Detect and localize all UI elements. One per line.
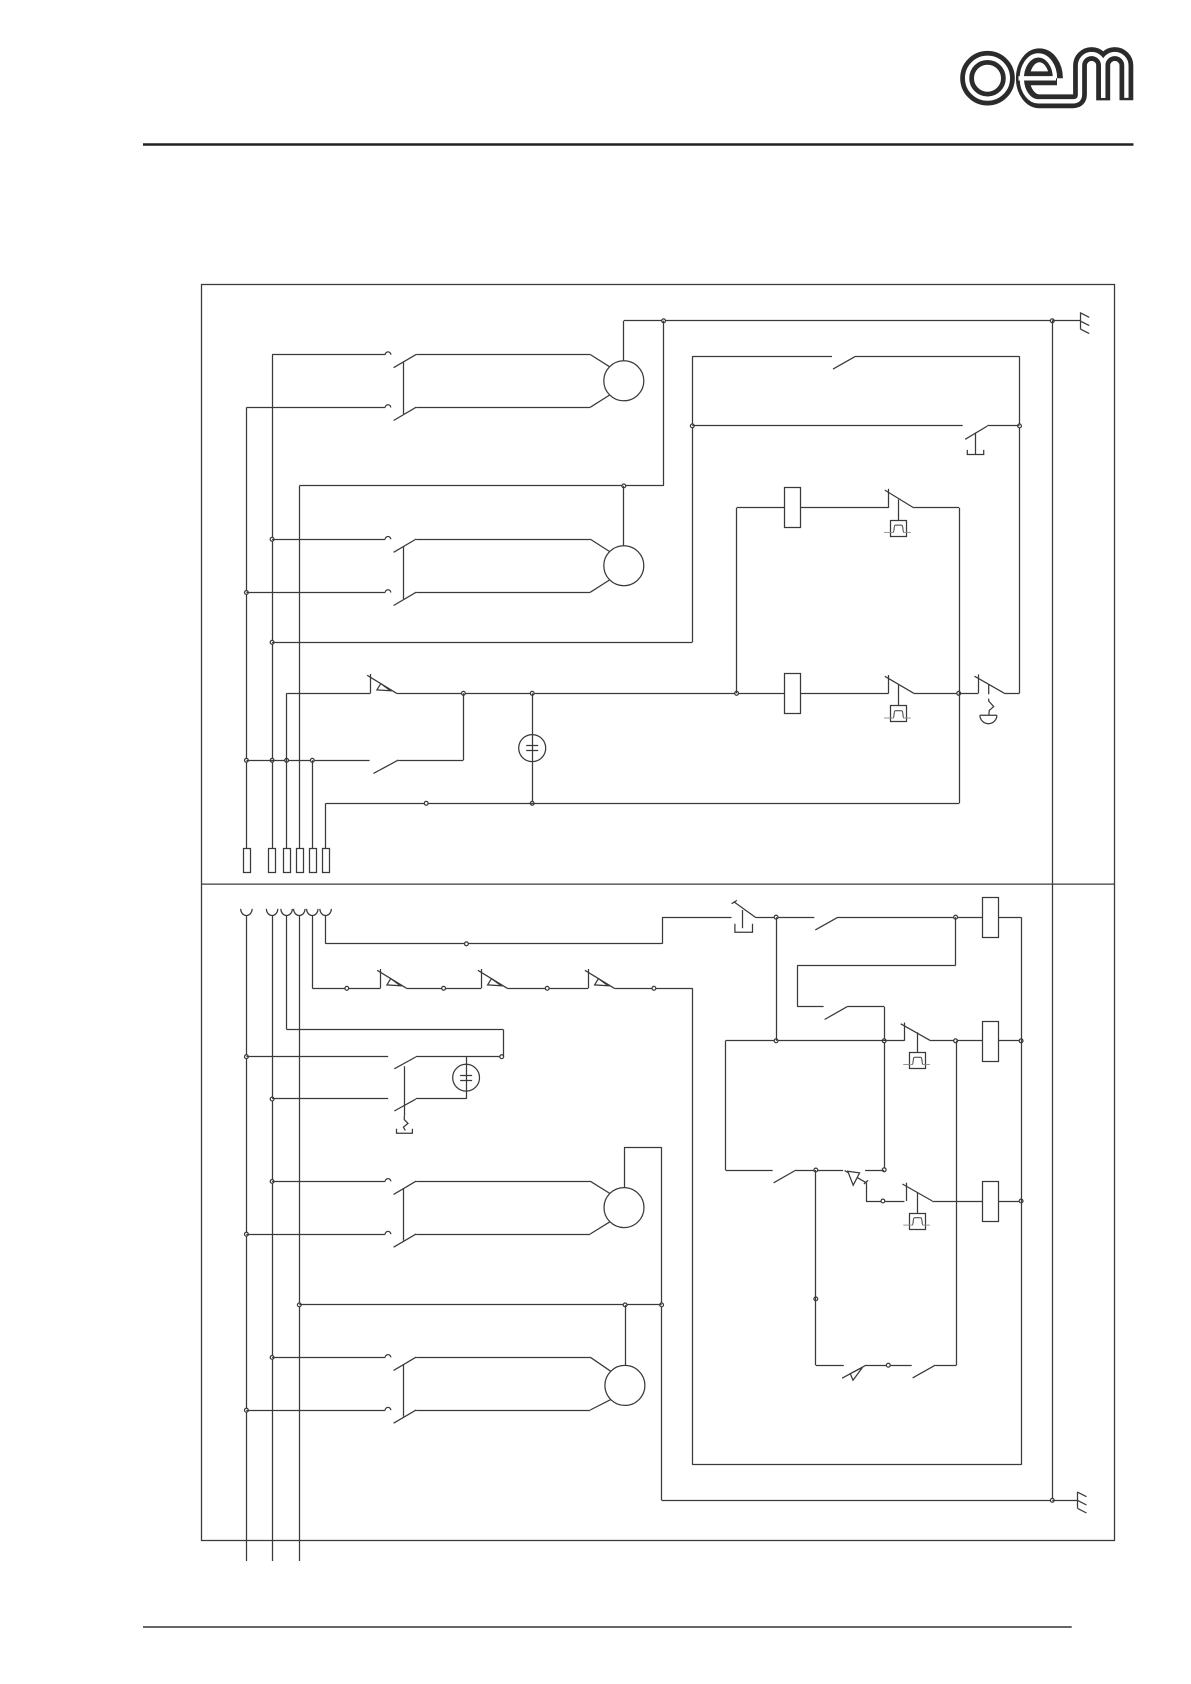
node junction	[886, 1363, 890, 1367]
connector socket 6	[320, 909, 331, 916]
contact F4 release box	[910, 1053, 926, 1069]
wire control loop feed	[272, 642, 692, 644]
node junction	[530, 691, 534, 695]
node junction	[1050, 1498, 1054, 1502]
node junction	[774, 915, 778, 919]
wire estop right	[1004, 693, 1019, 695]
wire Q1 pole1 input	[272, 354, 385, 356]
node junction	[774, 1039, 778, 1043]
fuse F3	[284, 849, 291, 873]
wire relay row2	[726, 1040, 905, 1042]
wire after K1	[800, 507, 888, 509]
switch S5 arrow blade	[842, 1365, 866, 1378]
wire branch drop3	[884, 1007, 886, 1170]
coil K1	[785, 488, 801, 528]
coil K5	[983, 1022, 999, 1062]
wire lamp row2	[272, 1098, 388, 1100]
wire L1 column lower	[246, 916, 248, 1562]
switch Q5 breaker 1	[380, 969, 382, 988]
contact F2 thermal NC	[888, 675, 890, 693]
contact K self-hold 3	[774, 1170, 797, 1183]
wire Q3 pole1 input	[272, 1181, 385, 1183]
node junction	[442, 986, 446, 990]
wire branch row	[797, 1006, 823, 1008]
contact F2 release box	[891, 706, 907, 722]
wire inner box right edge	[1021, 917, 1023, 1465]
wire phase bridge	[246, 760, 369, 762]
wire interlock riser	[776, 917, 778, 1041]
connector socket 1	[241, 909, 252, 916]
node junction	[310, 758, 314, 762]
coil K6	[983, 1182, 999, 1222]
wire fuse column 6	[325, 803, 327, 848]
wire branch row right	[847, 1006, 884, 1008]
wire lamp H1 stem	[532, 693, 534, 803]
node junction	[623, 1303, 627, 1307]
node junction	[345, 986, 349, 990]
motor M3	[604, 1188, 644, 1228]
switch S3 plunger actuator	[742, 910, 744, 928]
wire K1 branch riser	[736, 508, 738, 693]
wire Q2 pole2 input	[246, 592, 385, 594]
switch Q3 link bar	[403, 1188, 405, 1240]
switch S4 arrow blade	[845, 1171, 866, 1183]
node junction	[245, 591, 249, 595]
wire relay row4	[866, 1201, 904, 1203]
connector socket 4	[294, 909, 305, 916]
switch Q4 link bar	[403, 1364, 405, 1416]
wire Q1 pole2 output	[416, 407, 590, 409]
contact F1 release box	[891, 521, 907, 537]
node junction	[954, 1039, 958, 1043]
wire column 6 lower	[325, 916, 327, 944]
node junction	[882, 1168, 886, 1172]
node junction	[954, 915, 958, 919]
switch Q5 breaker 3	[588, 969, 590, 988]
wire M4 top feed	[625, 1305, 627, 1366]
wire relay row3 right	[865, 1170, 884, 1172]
wire after K4	[999, 917, 1022, 919]
node junction	[245, 1055, 249, 1059]
node junction	[462, 691, 466, 695]
node junction	[270, 758, 274, 762]
wire after F1	[914, 507, 959, 509]
wire Q3 pole1 output	[416, 1181, 590, 1183]
motor M4	[605, 1365, 645, 1405]
switch S2 limit blade	[965, 426, 987, 439]
wire S4 common drop	[866, 1183, 868, 1201]
wire breaker row seg1	[312, 988, 380, 990]
wire after K2	[800, 693, 888, 695]
wire relay row3	[726, 1170, 773, 1172]
ground chassis top	[1052, 320, 1080, 322]
wire control return	[326, 803, 960, 805]
node junction	[1050, 319, 1054, 323]
switch S6 link bar	[404, 1066, 406, 1116]
contact F1 thermal NC	[888, 489, 890, 508]
wire branch drop2	[797, 965, 799, 1006]
wire bottom ground rail	[662, 1500, 1053, 1502]
node junction	[545, 986, 549, 990]
switch Q5 breaker 2	[481, 969, 483, 988]
node junction	[465, 942, 469, 946]
ground chassis bottom	[1052, 1500, 1078, 1502]
contact K self-hold 1	[815, 917, 838, 930]
wire to coil K6	[932, 1201, 982, 1203]
wire control box left edge	[692, 356, 694, 642]
lamp H2	[453, 1064, 480, 1091]
wire estop left	[959, 693, 979, 695]
switch S0 estop NC	[978, 674, 980, 693]
wire relay row2 left riser	[725, 1041, 727, 1170]
wire lamp feed from col3	[287, 1029, 504, 1031]
wire L2 column lower	[272, 916, 274, 1562]
lamp H1	[519, 735, 546, 762]
wire Q4 pole1 output	[416, 1357, 590, 1359]
contact K self-hold 4	[913, 1365, 936, 1378]
wire column 5 lower	[312, 916, 314, 989]
wire motor M1 top feed	[623, 321, 625, 361]
switch Q0 lower blade	[374, 760, 399, 773]
node junction	[285, 758, 289, 762]
wire subbox bottom left	[816, 1365, 844, 1367]
wire control box right edge	[1019, 356, 1021, 693]
node junction	[1018, 424, 1022, 428]
wire control box top edge	[692, 356, 832, 358]
wire motor common	[299, 485, 663, 487]
node junction	[270, 1180, 274, 1184]
node junction	[270, 640, 274, 644]
wire to coil K5	[931, 1040, 982, 1042]
wire limit switch out	[987, 425, 1019, 427]
node junction	[690, 424, 694, 428]
contact F4 thermal NC	[904, 1023, 906, 1041]
wire K1 return riser	[959, 508, 961, 803]
wire lamp row1	[246, 1056, 388, 1058]
wire limit switch row	[692, 425, 962, 427]
wire motor M2 top feed	[623, 486, 625, 546]
wire breaker row seg3	[507, 988, 588, 990]
wire ground drop column	[661, 1147, 663, 1500]
contact F5 thermal NC	[906, 1183, 908, 1201]
fuse F4	[297, 849, 304, 873]
switch S6 foot actuator	[403, 1116, 408, 1131]
node junction	[270, 1356, 274, 1360]
node junction	[1019, 1039, 1023, 1043]
wire after K6	[998, 1201, 1021, 1203]
node junction	[660, 1303, 664, 1307]
switch S6 blade2	[394, 1099, 415, 1111]
switch S0 estop linkage	[989, 685, 994, 715]
wire after S3	[756, 917, 815, 919]
connector socket 5	[307, 909, 318, 916]
node junction	[882, 1039, 886, 1043]
wire pilot riser	[662, 917, 664, 944]
wire branch drop1	[955, 917, 957, 965]
coil K2	[785, 674, 801, 714]
wire L1 column	[246, 408, 248, 849]
node junction	[270, 1097, 274, 1101]
wire fuse column 3	[286, 693, 288, 848]
wire L3 column	[299, 486, 301, 848]
motor M1	[604, 361, 644, 401]
contact K self-hold 2	[825, 1007, 848, 1020]
wire top ground rail	[624, 320, 1053, 322]
wire column 3 lower	[286, 916, 288, 1030]
wire inner box left edge	[692, 988, 694, 1465]
node junction	[500, 1055, 504, 1059]
wire control box top edge right	[856, 356, 1020, 358]
wire subbox bottom right	[935, 1365, 956, 1367]
enclosure box top section	[202, 285, 1115, 1541]
connector socket 2	[266, 909, 277, 916]
node junction	[652, 986, 656, 990]
wire after F2	[914, 693, 959, 695]
node junction	[957, 691, 961, 695]
switch S3 limit NC blade	[734, 902, 756, 918]
fuse F6	[323, 849, 330, 873]
wire L2 column	[272, 355, 274, 848]
node junction	[814, 1168, 818, 1172]
wire lamp row1 out	[416, 1056, 502, 1058]
wire breaker row seg4	[614, 988, 692, 990]
wire Q4 pole2 output	[416, 1410, 590, 1412]
logo OEM	[967, 54, 1126, 101]
wire Q1 pole2 input	[246, 407, 385, 409]
fuse F1	[244, 849, 251, 873]
wire Q2 pole1 output	[416, 539, 590, 541]
wire Q3 pole2 output	[416, 1234, 590, 1236]
node junction	[245, 1408, 249, 1412]
wire branch cross	[797, 965, 955, 967]
fuse F5	[310, 849, 317, 873]
node junction	[530, 801, 534, 805]
wire riser to ground rail	[663, 321, 665, 486]
node junction	[881, 1199, 885, 1203]
wire after K5	[999, 1040, 1022, 1042]
wire lower pole out	[398, 760, 463, 762]
wire Q4 pole1 input	[272, 1357, 385, 1359]
node junction	[735, 691, 739, 695]
wire L3 column lower	[299, 916, 301, 1562]
wire Q2 pole1 input	[272, 539, 385, 541]
switch Q1 link bar	[403, 362, 405, 414]
switch Q2 link bar	[403, 546, 405, 599]
section divider	[202, 883, 1115, 885]
switch S2 plunger actuator	[975, 433, 977, 455]
switch S6 blade1	[394, 1057, 415, 1069]
wire pilot feed	[326, 943, 663, 945]
wire Q4 pole2 input	[246, 1410, 385, 1412]
node junction	[622, 484, 626, 488]
wire Q2 pole2 output	[416, 592, 590, 594]
contact F5 release box	[910, 1214, 926, 1230]
wire subbox right edge	[956, 1041, 958, 1365]
wire fuse column 5	[312, 760, 314, 848]
coil K4	[983, 898, 999, 938]
wire to coil K4	[838, 917, 982, 919]
wire breaker row seg2	[407, 988, 482, 990]
wire main row left	[287, 693, 371, 695]
switch S0 estop mushroom	[980, 715, 997, 723]
switch S1 blade	[833, 356, 856, 369]
wire subbox bottom mid	[866, 1365, 912, 1367]
wire pole link riser	[463, 693, 465, 760]
node junction	[424, 801, 428, 805]
wire lamp row2 out	[416, 1098, 466, 1100]
motor M2	[604, 546, 644, 586]
wire inner box bottom edge	[693, 1464, 1022, 1466]
node junction	[1019, 1199, 1023, 1203]
wire M3 top jog	[624, 1147, 626, 1187]
wire pilot row	[662, 917, 731, 919]
wire Q1 pole1 output	[416, 354, 590, 356]
wire subbox left edge	[815, 1170, 817, 1365]
switch Q0 upper breaker	[370, 674, 372, 693]
footer rule	[143, 1626, 1072, 1628]
wire K1 branch top	[737, 507, 785, 509]
header rule	[143, 143, 1134, 146]
fuse F2	[269, 849, 276, 873]
node junction	[814, 1297, 818, 1301]
node junction	[245, 758, 249, 762]
node junction	[662, 319, 666, 323]
wire Q3 pole2 input	[246, 1234, 385, 1236]
wire right rail	[1052, 321, 1054, 1501]
node junction	[270, 537, 274, 541]
wire relay row3 mid	[796, 1170, 843, 1172]
wire main row	[397, 693, 784, 695]
node junction	[297, 1303, 301, 1307]
wire motor top tie	[299, 1304, 661, 1306]
wire lamp H2 stem	[466, 1057, 468, 1099]
connector socket 3	[281, 909, 292, 916]
node junction	[245, 1232, 249, 1236]
